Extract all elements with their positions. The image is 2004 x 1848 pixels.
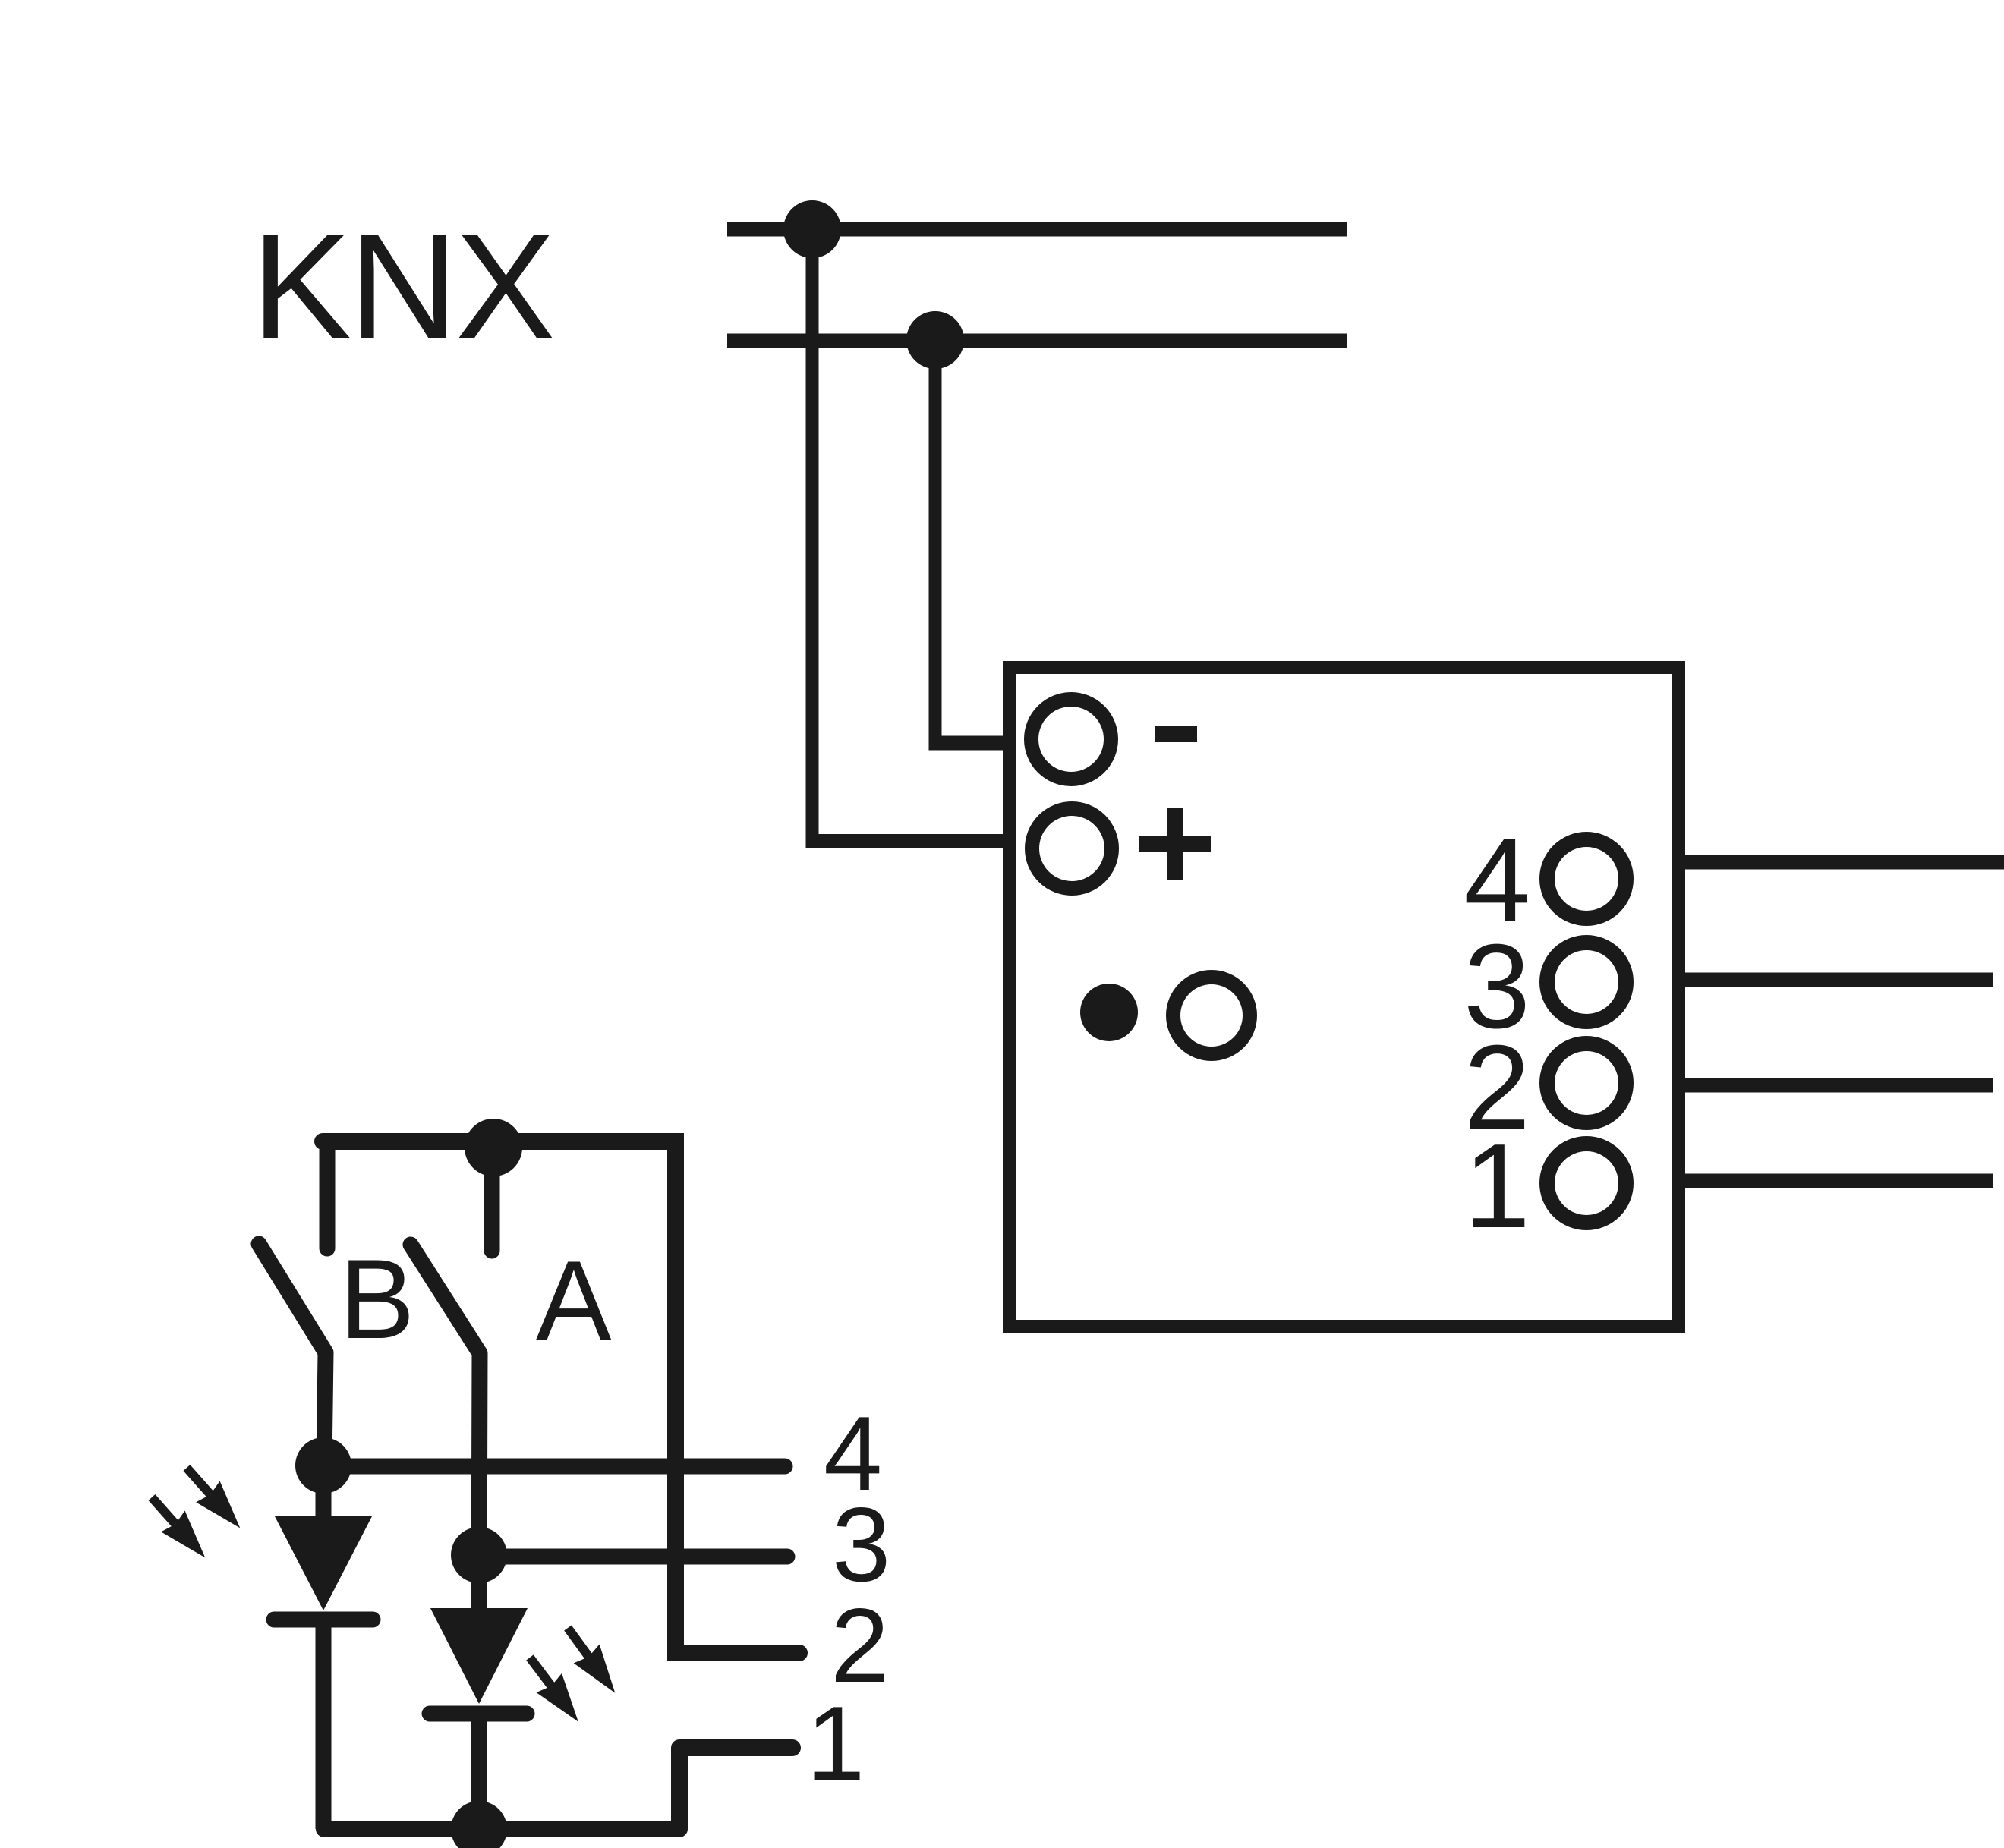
svg-text:1: 1 [806,1685,865,1802]
svg-text:KNX: KNX [251,203,553,371]
svg-text:3: 3 [832,1486,890,1604]
svg-text:B: B [339,1236,414,1362]
svg-text:1: 1 [1464,1119,1530,1253]
svg-text:A: A [536,1237,612,1364]
